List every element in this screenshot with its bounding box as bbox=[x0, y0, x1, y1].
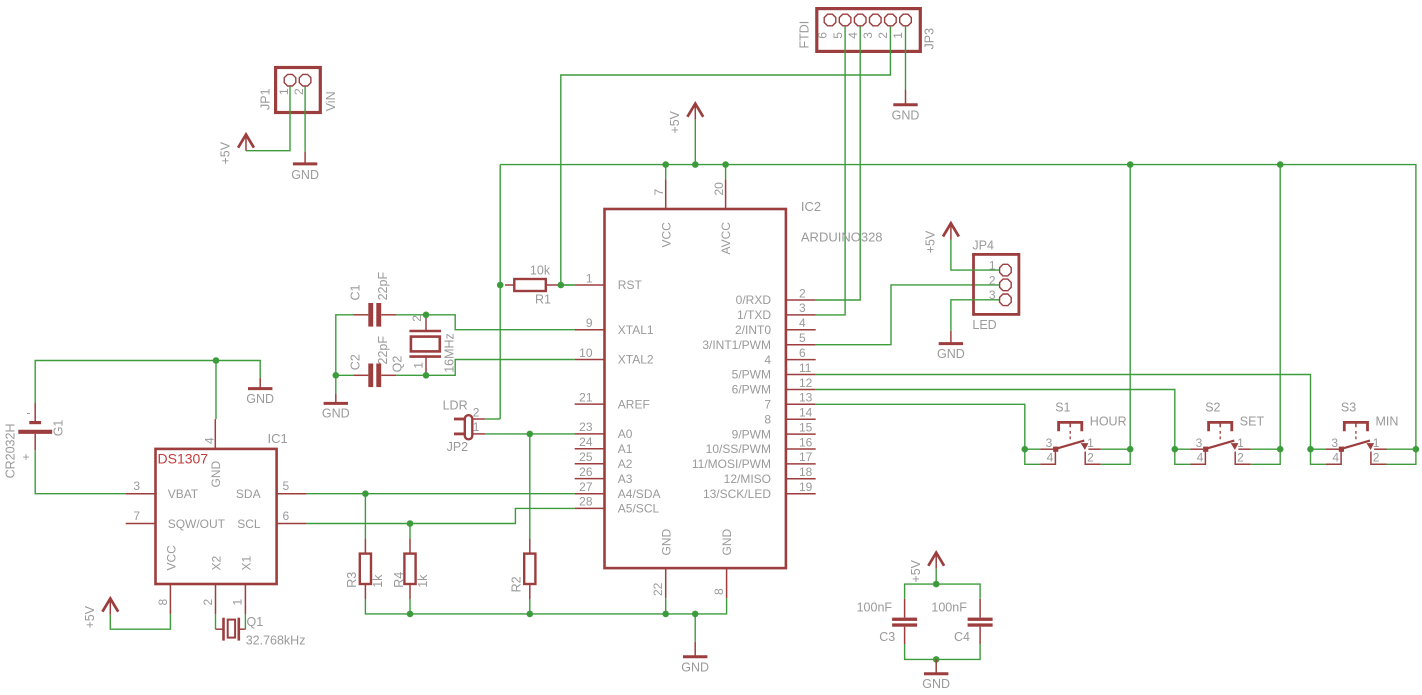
wire JP1 pin1 to +5V bbox=[246, 86, 290, 150]
svg-text:S2: S2 bbox=[1205, 401, 1220, 415]
wire JP3 pin4 to IC2 RXD bbox=[816, 26, 861, 300]
svg-text:28: 28 bbox=[579, 495, 593, 509]
junction SCL/R4 bbox=[407, 520, 414, 527]
header JP1 bbox=[258, 68, 338, 113]
svg-text:2: 2 bbox=[989, 273, 996, 287]
svg-text:JP1: JP1 bbox=[258, 88, 272, 110]
wire Q1 to X1 bbox=[244, 614, 246, 629]
svg-text:LED: LED bbox=[972, 318, 996, 332]
wire LDR pin1 to A0 bbox=[485, 433, 575, 435]
junction rail R2 bbox=[527, 611, 534, 618]
svg-text:S1: S1 bbox=[1055, 401, 1070, 415]
junction C2 left bbox=[333, 372, 340, 379]
svg-text:5/PWM: 5/PWM bbox=[732, 368, 771, 382]
svg-text:GND: GND bbox=[659, 529, 673, 556]
svg-text:4: 4 bbox=[202, 437, 216, 444]
svg-text:3: 3 bbox=[799, 301, 806, 315]
svg-text:3: 3 bbox=[1046, 436, 1053, 450]
svg-text:+5V: +5V bbox=[924, 230, 938, 253]
wire +5V arrow stem bbox=[694, 120, 696, 165]
svg-text:SQW/OUT: SQW/OUT bbox=[168, 517, 226, 531]
svg-text:14: 14 bbox=[799, 406, 813, 420]
svg-text:5: 5 bbox=[283, 479, 290, 493]
svg-text:15: 15 bbox=[799, 420, 813, 434]
wire +5V drop to R1/LDR bbox=[499, 165, 501, 419]
svg-text:G1: G1 bbox=[52, 420, 66, 437]
svg-text:R4: R4 bbox=[392, 572, 406, 588]
junction rail arrow bbox=[692, 161, 699, 168]
wire +5V rail bbox=[500, 165, 1416, 450]
svg-text:AVCC: AVCC bbox=[719, 222, 733, 255]
svg-text:2: 2 bbox=[410, 315, 424, 322]
svg-text:JP4: JP4 bbox=[972, 239, 994, 253]
svg-text:ViN: ViN bbox=[324, 91, 338, 111]
svg-text:25: 25 bbox=[579, 450, 593, 464]
wire C3/C4 top rail bbox=[905, 584, 981, 599]
capacitor C1 bbox=[349, 272, 397, 327]
svg-text:27: 27 bbox=[579, 480, 593, 494]
junction rail gnd bbox=[692, 611, 699, 618]
svg-text:1: 1 bbox=[411, 362, 425, 369]
svg-text:6/PWM: 6/PWM bbox=[732, 383, 771, 397]
svg-text:1: 1 bbox=[1087, 436, 1094, 450]
wire IC1 VCC to +5V bbox=[110, 614, 170, 629]
battery G1 bbox=[4, 403, 66, 478]
svg-text:GND: GND bbox=[922, 677, 950, 691]
wire R3 top bbox=[364, 494, 366, 539]
svg-text:9/PWM: 9/PWM bbox=[732, 427, 771, 441]
svg-text:11: 11 bbox=[799, 361, 812, 375]
+5V supply at JP1 bbox=[219, 135, 254, 165]
svg-text:2: 2 bbox=[473, 406, 480, 420]
svg-text:17: 17 bbox=[799, 450, 813, 464]
svg-text:2: 2 bbox=[1237, 450, 1244, 464]
svg-text:1: 1 bbox=[891, 32, 905, 39]
svg-text:GND: GND bbox=[681, 661, 709, 675]
svg-text:DS1307: DS1307 bbox=[158, 451, 209, 467]
junction rail VCC bbox=[662, 161, 669, 168]
+5V supply at JP4 bbox=[924, 223, 959, 253]
svg-text:10k: 10k bbox=[530, 264, 551, 278]
ground below JP4 bbox=[937, 331, 965, 361]
svg-text:+5V: +5V bbox=[219, 141, 233, 164]
svg-text:FTDI: FTDI bbox=[798, 21, 812, 49]
svg-text:A4/SDA: A4/SDA bbox=[618, 487, 661, 501]
svg-text:+: + bbox=[22, 450, 29, 464]
svg-text:6: 6 bbox=[283, 509, 290, 523]
resistor R4 bbox=[392, 539, 430, 599]
svg-text:SCL: SCL bbox=[237, 517, 261, 531]
junction C3C4 bottom bbox=[933, 656, 940, 663]
svg-text:2: 2 bbox=[292, 88, 306, 95]
svg-text:19: 19 bbox=[799, 480, 813, 494]
junction rail S1 bbox=[1127, 161, 1134, 168]
svg-text:GND: GND bbox=[892, 109, 920, 123]
svg-text:16MHz: 16MHz bbox=[442, 333, 456, 373]
svg-text:26: 26 bbox=[579, 465, 593, 479]
wire SDA net bbox=[306, 493, 574, 495]
svg-text:4: 4 bbox=[1332, 450, 1339, 464]
wire C1 row to XTAL1 bbox=[396, 315, 574, 330]
capacitor C3 bbox=[857, 599, 918, 644]
svg-text:18: 18 bbox=[799, 465, 813, 479]
resistor R2 bbox=[510, 539, 536, 599]
junction rail pin22 bbox=[662, 611, 669, 618]
svg-text:3: 3 bbox=[1196, 436, 1203, 450]
wire SCL net bbox=[306, 508, 574, 523]
junction Q2 pin2 bbox=[423, 312, 430, 319]
crystal Q1 bbox=[216, 615, 306, 648]
wire pin13 to S1 bbox=[816, 404, 1025, 449]
junction SDA/R3 bbox=[362, 490, 369, 497]
wire ground rail bbox=[365, 598, 726, 614]
switch S3 MIN bbox=[1307, 401, 1419, 465]
junction Q2 pin1 bbox=[423, 372, 430, 379]
svg-text:VCC: VCC bbox=[659, 222, 673, 248]
wire IC1 pin4 up bbox=[215, 361, 217, 420]
svg-text:0/RXD: 0/RXD bbox=[736, 293, 772, 307]
wire RST short bbox=[561, 284, 575, 286]
svg-text:+5V: +5V bbox=[909, 559, 923, 582]
svg-text:16: 16 bbox=[799, 435, 813, 449]
svg-text:A5/SCL: A5/SCL bbox=[618, 502, 660, 516]
svg-text:32.768kHz: 32.768kHz bbox=[246, 634, 306, 648]
svg-text:X2: X2 bbox=[210, 555, 224, 570]
svg-text:R3: R3 bbox=[345, 572, 359, 588]
ground below JP3 bbox=[892, 90, 920, 123]
ground below JP1 bbox=[291, 152, 319, 182]
svg-text:SDA: SDA bbox=[236, 487, 261, 501]
wire R2 top bbox=[529, 434, 531, 539]
ground below C3/C4 bbox=[922, 659, 950, 691]
wire C1-C2 left rail bbox=[336, 315, 354, 394]
svg-text:GND: GND bbox=[720, 529, 734, 556]
svg-text:1k: 1k bbox=[371, 574, 385, 588]
IC1 DS1307 bbox=[126, 419, 307, 614]
svg-text:S3: S3 bbox=[1341, 401, 1356, 415]
svg-text:4: 4 bbox=[799, 316, 806, 330]
crystal Q2 bbox=[391, 315, 457, 376]
svg-text:8: 8 bbox=[156, 599, 170, 606]
svg-text:R2: R2 bbox=[510, 576, 524, 592]
svg-text:1/TXD: 1/TXD bbox=[737, 308, 771, 322]
svg-text:Q1: Q1 bbox=[247, 615, 264, 629]
ground right of battery bbox=[246, 378, 274, 406]
svg-text:Q2: Q2 bbox=[391, 356, 405, 373]
wire gnd drop bbox=[694, 614, 696, 642]
svg-text:A1: A1 bbox=[618, 442, 633, 456]
svg-text:C4: C4 bbox=[954, 630, 970, 644]
junction R1 right bbox=[558, 282, 565, 289]
svg-text:IC2: IC2 bbox=[801, 199, 821, 214]
ground below C1/C2 bbox=[322, 394, 350, 421]
wire battery to VBAT bbox=[35, 450, 126, 494]
wire S2 right to rail bbox=[1279, 165, 1281, 450]
wire JP3 pin5 to IC2 TXD bbox=[816, 26, 845, 315]
wire +5V stem C3C4 bbox=[935, 569, 937, 584]
svg-text:JP3: JP3 bbox=[922, 28, 936, 50]
svg-text:20: 20 bbox=[712, 182, 726, 196]
junction rail S2 bbox=[1277, 161, 1284, 168]
svg-text:23: 23 bbox=[579, 420, 593, 434]
wire battery top rail bbox=[35, 361, 260, 404]
wire X2 to Q1 bbox=[215, 614, 217, 629]
capacitor C2 bbox=[349, 336, 397, 387]
wire pin12 to S2 bbox=[816, 390, 1175, 450]
wire LDR pin2 to +5V net bbox=[485, 418, 500, 420]
resistor R1 bbox=[505, 264, 560, 307]
svg-text:21: 21 bbox=[579, 390, 593, 404]
svg-text:2: 2 bbox=[1087, 450, 1094, 464]
svg-text:LDR: LDR bbox=[443, 399, 468, 413]
junction battery rail bbox=[213, 357, 220, 364]
capacitor C4 bbox=[931, 599, 992, 644]
svg-text:24: 24 bbox=[579, 435, 593, 449]
svg-text:22: 22 bbox=[651, 582, 665, 596]
svg-text:GND: GND bbox=[291, 168, 319, 182]
svg-text:XTAL2: XTAL2 bbox=[618, 353, 654, 367]
svg-text:MIN: MIN bbox=[1376, 414, 1399, 428]
svg-text:CR2032H: CR2032H bbox=[4, 424, 18, 479]
+5V supply above IC2 bbox=[668, 104, 703, 134]
wire JP3 pin1 to ground bbox=[905, 26, 907, 89]
svg-text:VBAT: VBAT bbox=[168, 487, 199, 501]
wire R4 top bbox=[409, 524, 411, 539]
svg-text:12: 12 bbox=[799, 376, 813, 390]
wire pin22 to rail bbox=[665, 598, 667, 614]
svg-text:C1: C1 bbox=[349, 284, 363, 300]
svg-text:3: 3 bbox=[861, 32, 875, 39]
svg-text:22pF: 22pF bbox=[376, 336, 390, 365]
wire AVCC pin20 to rail bbox=[725, 165, 727, 180]
svg-text:4: 4 bbox=[846, 32, 860, 39]
svg-text:3/INT1/PWM: 3/INT1/PWM bbox=[702, 338, 771, 352]
svg-text:4: 4 bbox=[1047, 450, 1054, 464]
svg-text:8: 8 bbox=[712, 588, 726, 595]
svg-text:1: 1 bbox=[473, 420, 480, 434]
svg-text:A3: A3 bbox=[618, 472, 633, 486]
svg-text:22pF: 22pF bbox=[376, 272, 390, 301]
wire S1 right to rail bbox=[1129, 165, 1131, 450]
wire JP3 pin2 DTR to RST net bbox=[561, 26, 891, 285]
svg-text:2: 2 bbox=[1373, 450, 1380, 464]
svg-text:4: 4 bbox=[1197, 450, 1204, 464]
svg-text:-: - bbox=[27, 406, 31, 420]
svg-text:AREF: AREF bbox=[618, 397, 650, 411]
svg-text:1k: 1k bbox=[416, 574, 430, 588]
svg-text:2: 2 bbox=[201, 599, 215, 606]
svg-text:10: 10 bbox=[579, 346, 593, 360]
svg-text:GND: GND bbox=[322, 407, 350, 421]
svg-text:5: 5 bbox=[831, 32, 845, 39]
svg-text:1: 1 bbox=[231, 599, 245, 606]
LDR header JP2 bbox=[443, 399, 486, 455]
svg-text:8: 8 bbox=[764, 412, 771, 426]
svg-text:GND: GND bbox=[937, 347, 965, 361]
svg-text:HOUR: HOUR bbox=[1090, 414, 1127, 428]
svg-text:13: 13 bbox=[799, 391, 813, 405]
wire VCC pin7 to rail bbox=[665, 165, 667, 180]
svg-text:1: 1 bbox=[1237, 436, 1244, 450]
svg-text:2: 2 bbox=[799, 286, 806, 300]
+5V supply at C3/C4 bbox=[909, 553, 944, 583]
junction A0/R2 bbox=[527, 431, 534, 438]
svg-text:3: 3 bbox=[133, 479, 140, 493]
svg-text:C2: C2 bbox=[349, 354, 363, 370]
svg-text:7: 7 bbox=[764, 398, 771, 412]
svg-text:5: 5 bbox=[799, 331, 806, 345]
svg-text:IC1: IC1 bbox=[268, 431, 288, 446]
svg-text:VCC: VCC bbox=[164, 545, 178, 571]
switch S1 HOUR bbox=[1022, 401, 1134, 465]
svg-text:7: 7 bbox=[652, 189, 666, 196]
wire JP1 pin2 to ground bbox=[304, 86, 306, 151]
svg-text:100nF: 100nF bbox=[931, 601, 967, 615]
svg-text:12/MISO: 12/MISO bbox=[724, 472, 771, 486]
svg-text:A0: A0 bbox=[618, 427, 633, 441]
wire JP4 pin3 to ground bbox=[951, 300, 999, 331]
svg-text:100nF: 100nF bbox=[857, 601, 893, 615]
wire JP4 pin1 to +5V bbox=[951, 240, 999, 271]
svg-text:R1: R1 bbox=[535, 293, 551, 307]
wire pin5 to JP4 pin2 bbox=[816, 285, 1000, 345]
wire R1 to RST stub bbox=[561, 284, 575, 286]
svg-text:4: 4 bbox=[764, 353, 771, 367]
wire R2 bottom bbox=[529, 599, 531, 614]
svg-text:GND: GND bbox=[209, 461, 223, 488]
ground below IC2 bbox=[681, 642, 709, 675]
svg-text:SET: SET bbox=[1240, 414, 1265, 428]
svg-text:XTAL1: XTAL1 bbox=[618, 323, 654, 337]
svg-text:C3: C3 bbox=[879, 630, 895, 644]
svg-text:X1: X1 bbox=[239, 555, 253, 570]
svg-text:A2: A2 bbox=[618, 457, 633, 471]
svg-text:9: 9 bbox=[586, 316, 593, 330]
wire C2 row to XTAL2 bbox=[396, 360, 574, 376]
svg-text:2/INT0: 2/INT0 bbox=[735, 323, 771, 337]
wire pin11 to S3 bbox=[816, 375, 1311, 450]
svg-text:JP2: JP2 bbox=[447, 440, 469, 454]
svg-text:GND: GND bbox=[246, 392, 274, 406]
svg-text:RST: RST bbox=[618, 278, 643, 292]
svg-text:6: 6 bbox=[799, 346, 806, 360]
svg-text:1: 1 bbox=[277, 88, 291, 95]
wire C3/C4 bottom rail bbox=[905, 644, 981, 659]
svg-text:ARDUINO328: ARDUINO328 bbox=[801, 230, 883, 245]
svg-text:10/SS/PWM: 10/SS/PWM bbox=[706, 442, 771, 456]
FTDI header JP3 bbox=[798, 9, 937, 52]
junction rail AVCC bbox=[722, 161, 729, 168]
svg-text:1: 1 bbox=[1373, 436, 1380, 450]
LED header JP4 bbox=[972, 239, 1019, 333]
+5V supply at IC1 bbox=[83, 599, 118, 629]
resistor R3 bbox=[345, 539, 385, 599]
junction rail R4 bbox=[407, 611, 414, 618]
svg-text:+5V: +5V bbox=[668, 110, 682, 133]
junction C3C4 top bbox=[933, 581, 940, 588]
op-amp IC2 ARDUINO328 bbox=[575, 179, 883, 598]
svg-text:11/MOSI/PWM: 11/MOSI/PWM bbox=[692, 457, 771, 471]
switch S2 SET bbox=[1172, 401, 1284, 465]
svg-text:13/SCK/LED: 13/SCK/LED bbox=[703, 487, 771, 501]
svg-text:2: 2 bbox=[876, 32, 890, 39]
svg-text:6: 6 bbox=[816, 32, 830, 39]
svg-text:7: 7 bbox=[133, 509, 140, 523]
svg-text:1: 1 bbox=[586, 271, 593, 285]
svg-text:3: 3 bbox=[1331, 436, 1338, 450]
svg-text:+5V: +5V bbox=[83, 605, 97, 628]
junction R1 left bbox=[497, 282, 504, 289]
